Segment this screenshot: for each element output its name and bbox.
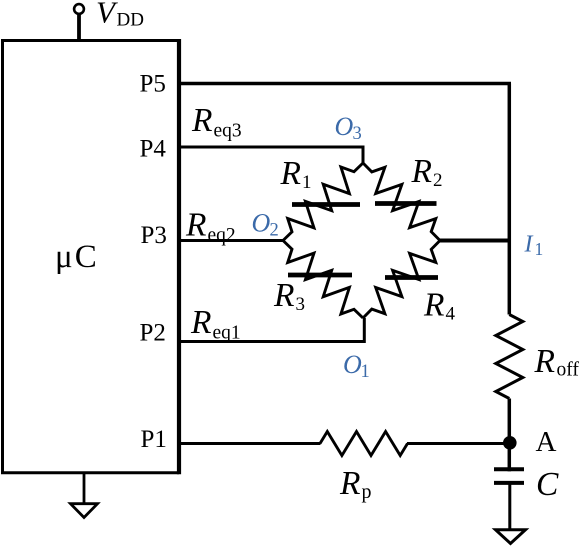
gauge bar R1 <box>292 202 360 207</box>
svg-text:μC: μC <box>55 239 99 275</box>
gauge bar R2 <box>375 201 437 206</box>
svg-text:4: 4 <box>446 304 456 325</box>
svg-text:V: V <box>96 0 118 30</box>
svg-text:A: A <box>536 426 557 458</box>
resistor R2 <box>363 163 440 241</box>
svg-text:DD: DD <box>117 9 144 30</box>
svg-text:P2: P2 <box>140 320 166 347</box>
svg-text:1: 1 <box>361 362 370 382</box>
svg-text:P3: P3 <box>141 222 167 249</box>
svg-text:R: R <box>339 465 360 502</box>
wire P2 to bridge bottom <box>179 318 364 342</box>
VDD terminal circle <box>74 4 84 14</box>
svg-text:R: R <box>273 277 294 314</box>
resistor R4 <box>363 241 440 319</box>
svg-text:O: O <box>335 112 354 141</box>
svg-text:R: R <box>411 153 432 190</box>
wire P3 to bridge left <box>179 239 283 242</box>
svg-text:1: 1 <box>535 239 544 259</box>
resistor Roff <box>496 315 523 399</box>
svg-text:O: O <box>343 350 362 379</box>
svg-text:2: 2 <box>433 170 443 191</box>
svg-text:eq1: eq1 <box>213 323 241 344</box>
svg-text:R: R <box>280 155 301 192</box>
wire P4 to bridge top <box>179 147 363 163</box>
wire P1 to Rp <box>179 442 321 445</box>
svg-text:R: R <box>191 102 212 139</box>
capacitor C bottom plate <box>494 481 524 485</box>
svg-text:P5: P5 <box>140 71 166 98</box>
VDD stem wire <box>77 14 81 42</box>
wire bridge right to bus <box>440 239 511 243</box>
svg-text:C: C <box>536 466 559 503</box>
svg-text:3: 3 <box>296 294 306 315</box>
resistor R3 <box>283 241 363 319</box>
svg-text:off: off <box>557 360 579 381</box>
microcontroller box U1 (muC) <box>3 39 180 474</box>
svg-text:R: R <box>534 343 555 380</box>
svg-text:eq2: eq2 <box>208 225 236 246</box>
gauge bar R3 <box>288 273 352 278</box>
gauge bar R4 <box>385 275 438 280</box>
resistor R1 <box>283 163 363 241</box>
svg-text:p: p <box>362 481 372 503</box>
resistor Rp <box>320 432 408 456</box>
wire Rp to node A <box>407 442 510 445</box>
wire capacitor to ground <box>508 483 511 531</box>
svg-text:2: 2 <box>270 221 279 241</box>
svg-text:P1: P1 <box>141 426 167 453</box>
wire P5 to right bus <box>179 82 511 86</box>
svg-text:3: 3 <box>353 124 362 144</box>
svg-text:R: R <box>190 304 211 341</box>
wire right bus vertical <box>508 84 512 315</box>
wire node A to capacitor <box>508 444 512 472</box>
svg-text:P4: P4 <box>140 136 167 163</box>
svg-text:eq3: eq3 <box>214 121 242 142</box>
svg-text:1: 1 <box>302 172 312 193</box>
capacitor C top plate <box>494 467 524 471</box>
svg-text:R: R <box>185 206 206 243</box>
ground symbol left <box>83 473 86 504</box>
svg-text:O: O <box>252 209 271 238</box>
ground symbol right <box>496 530 526 544</box>
wire Roff to node A <box>508 399 512 444</box>
node A junction dot <box>503 436 517 450</box>
svg-text:R: R <box>423 287 444 324</box>
svg-text:I: I <box>524 232 534 258</box>
